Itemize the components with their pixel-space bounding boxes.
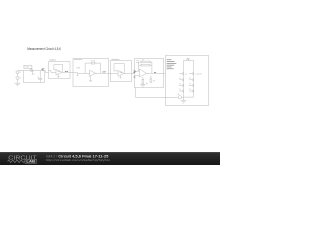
subcircuit box4 voltage follower 2 bbox=[111, 61, 132, 82]
op-amp U4 bbox=[140, 69, 147, 77]
svg-text:R1: R1 bbox=[142, 60, 144, 62]
ground stub box3 bbox=[89, 76, 92, 81]
wire input box2 (jog) bbox=[49, 71, 57, 73]
subcircuit box3 transimpedance amp bbox=[73, 59, 109, 87]
svg-text:Rg: Rg bbox=[146, 83, 148, 85]
wire stub node mid box1 bbox=[32, 71, 34, 74]
svg-text:C6: C6 bbox=[189, 89, 191, 91]
svg-text:0: 0 bbox=[34, 74, 35, 76]
svg-text:C5: C5 bbox=[179, 89, 181, 91]
resistor R3 feedback bbox=[141, 61, 150, 63]
svg-text:in-: in- bbox=[134, 77, 137, 79]
wire right column array bbox=[193, 61, 195, 98]
svg-text:V1: V1 bbox=[19, 72, 21, 74]
svg-text:voltage follower: voltage follower bbox=[111, 58, 120, 61]
svg-text:Re: Re bbox=[43, 68, 45, 70]
ground stub box4 bbox=[119, 76, 121, 78]
wire feedback loop box2 bbox=[54, 65, 63, 73]
wire top bus array bbox=[184, 59, 194, 61]
svg-text:http://circuitlab.com/c/ka6a7q: http://circuitlab.com/c/ka6a7qv52ybm bbox=[46, 158, 111, 162]
resistor R1 inline top edge bbox=[31, 70, 33, 72]
logo LAB box bbox=[25, 159, 37, 163]
ground (array) bbox=[181, 97, 187, 103]
svg-text:LAB: LAB bbox=[26, 160, 35, 164]
capacitor Cp2 bbox=[189, 72, 193, 75]
op-amp U2 bbox=[90, 70, 96, 76]
diode tick top-right box1 bbox=[41, 69, 43, 71]
wire box1 to box2 (jog) bbox=[45, 71, 48, 73]
subcircuit box6 electrode array bbox=[166, 56, 209, 106]
svg-text:Measurement Circuit 4,5,6: Measurement Circuit 4,5,6 bbox=[27, 47, 61, 51]
op-amp U1 bbox=[56, 70, 62, 76]
wire return line to array ground bbox=[136, 88, 184, 98]
ground stub box5 bbox=[140, 83, 146, 87]
wire feedback box3 bbox=[85, 63, 100, 73]
svg-text:V2: V2 bbox=[19, 78, 21, 80]
capacitor Ce6 bbox=[189, 90, 193, 93]
svg-text:C2: C2 bbox=[189, 78, 191, 80]
wire feedback box5 bbox=[139, 62, 152, 73]
component value labels bbox=[15, 58, 203, 96]
capacitor Ce2 bbox=[189, 78, 193, 81]
subcircuit box2 voltage follower 1 bbox=[49, 62, 71, 79]
svg-text:+: + bbox=[15, 71, 16, 73]
voltage source V2 bbox=[16, 77, 19, 80]
svg-text:out: out bbox=[65, 70, 68, 73]
wire inputs box5 bbox=[135, 71, 140, 75]
capacitor C1 bbox=[38, 79, 42, 80]
subcircuit box1 electrode model loop bbox=[24, 71, 45, 83]
svg-text:voltage follower: voltage follower bbox=[49, 58, 57, 61]
svg-text:amp: amp bbox=[136, 62, 139, 64]
svg-text:C3: C3 bbox=[179, 84, 181, 86]
svg-text:Rb: Rb bbox=[153, 81, 155, 83]
wire output box4 bbox=[124, 72, 135, 74]
wire output box3 bbox=[96, 72, 111, 74]
current meter M1 bbox=[178, 96, 181, 99]
wire bottom join array bbox=[184, 96, 194, 98]
wire input rail box3 bbox=[73, 73, 90, 76]
svg-text:+: + bbox=[15, 76, 16, 78]
svg-text:Rs: Rs bbox=[30, 68, 32, 70]
svg-text:C1: C1 bbox=[179, 78, 181, 80]
capacitor Cp1 bbox=[179, 72, 183, 75]
wire output box5 bbox=[147, 72, 166, 74]
label box above box1 bbox=[24, 65, 32, 68]
op-amp U3 bbox=[118, 70, 124, 76]
capacitor Ce5 bbox=[179, 90, 183, 93]
capacitor Ce3 bbox=[179, 84, 183, 87]
annotation note block bbox=[167, 59, 177, 69]
wire left column array bbox=[183, 61, 185, 98]
svg-text:Rf 1M: Rf 1M bbox=[91, 61, 96, 63]
wire input to box1 bbox=[18, 70, 24, 72]
ground (input chain) bbox=[15, 82, 21, 86]
wire source chain bbox=[17, 74, 19, 83]
svg-text:mod 4: mod 4 bbox=[25, 67, 30, 69]
wire feedback loop box4 bbox=[114, 64, 124, 74]
wire cap branch box1 bbox=[39, 71, 41, 83]
svg-text:Cd: Cd bbox=[37, 77, 39, 79]
capacitor Ce4 bbox=[189, 84, 193, 87]
logo zigzag bbox=[8, 160, 25, 163]
svg-text:C4: C4 bbox=[189, 84, 191, 86]
subcircuit box5 output amplifier bbox=[135, 59, 164, 88]
capacitor C2 feedback bbox=[141, 64, 150, 66]
wire input box4 bbox=[111, 72, 119, 74]
svg-text:transimpedance: transimpedance bbox=[74, 58, 83, 61]
resistor R5 bias2 bbox=[150, 76, 152, 79]
resistor R2 feedback bbox=[91, 62, 95, 64]
ground stub box2 bbox=[57, 74, 59, 77]
resistor R4 bias bbox=[142, 77, 144, 79]
voltage source V1 bbox=[16, 71, 19, 74]
capacitor Ce1 bbox=[179, 78, 183, 81]
footer bar bbox=[0, 152, 220, 165]
wire output box2 bbox=[62, 72, 73, 74]
svg-text:Cp: Cp bbox=[185, 73, 187, 75]
